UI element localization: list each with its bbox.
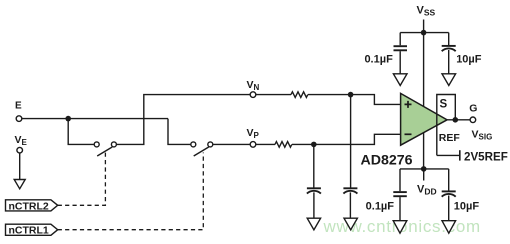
svg-text:REF: REF bbox=[439, 132, 461, 144]
wire node P down to capacitor C6 bbox=[313, 144, 315, 188]
svg-text:nCTRL1: nCTRL1 bbox=[9, 225, 49, 237]
svg-text:nCTRL2: nCTRL2 bbox=[9, 200, 49, 212]
wire bottom rail bbox=[400, 168, 449, 170]
svg-text:G: G bbox=[469, 103, 477, 115]
wire resistor R2 to -in step bbox=[292, 134, 401, 144]
switch S2 bbox=[191, 142, 213, 156]
wire switch2 to VP bbox=[213, 143, 250, 145]
node VP terminal bbox=[250, 142, 256, 148]
capacitor C4 10uF bottom (polarized) bbox=[442, 169, 456, 221]
ground under C2 bbox=[442, 74, 456, 86]
capacitor C5 (polarized) bbox=[343, 188, 357, 218]
wire E row bbox=[22, 118, 168, 120]
sense box S bbox=[437, 95, 456, 156]
wire node N down to capacitor C5 bbox=[350, 95, 352, 188]
wire switch1 to VN riser bbox=[116, 95, 250, 145]
junction output bbox=[453, 117, 459, 123]
capacitor C3 0.1uF bottom bbox=[393, 169, 407, 221]
junction node N bbox=[348, 92, 354, 98]
arrow VE bbox=[14, 180, 25, 189]
VDD stub bbox=[423, 169, 425, 181]
capacitor C1 0.1uF top bbox=[394, 33, 408, 74]
op-amp U1 AD8276 bbox=[401, 93, 448, 145]
wire resistor R1 to +in step bbox=[308, 95, 401, 105]
wire REF to 2V5REF bbox=[437, 154, 460, 156]
dashed control nCTRL1 to S2 bbox=[58, 153, 204, 230]
node G terminal bbox=[470, 117, 476, 123]
junction VSS bbox=[421, 30, 427, 36]
wire output to G bbox=[447, 119, 470, 121]
flag nCTRL2 bbox=[6, 200, 58, 211]
capacitor C6 (polarized) bbox=[307, 188, 321, 218]
op-amp minus sign bbox=[405, 133, 412, 135]
wire VN to resistor bbox=[256, 94, 291, 96]
op-amp plus sign bbox=[405, 101, 412, 108]
svg-text:2V5REF: 2V5REF bbox=[464, 150, 508, 163]
ground under C4 bbox=[442, 221, 456, 234]
wire VP to resistor bbox=[256, 143, 275, 145]
terminal bar 2V5REF bbox=[459, 150, 461, 160]
wire top rail bbox=[400, 32, 449, 34]
VSS stub bbox=[423, 20, 425, 33]
node VN terminal bbox=[250, 92, 256, 98]
ground under C3 bbox=[393, 221, 407, 234]
svg-text:0.1µF: 0.1µF bbox=[364, 54, 393, 66]
svg-text:AD8276: AD8276 bbox=[361, 153, 413, 169]
junction node P bbox=[311, 142, 317, 148]
flag nCTRL1 bbox=[6, 224, 58, 235]
svg-text:E: E bbox=[15, 101, 22, 112]
ground under C6 bbox=[307, 218, 320, 230]
ground under C1 bbox=[393, 74, 407, 86]
supply rail through op-amp bbox=[423, 33, 425, 169]
switch S1 bbox=[94, 142, 116, 156]
junction VDD bbox=[421, 166, 427, 172]
svg-text:0.1µF: 0.1µF bbox=[366, 201, 395, 213]
wire E row down to switch 2 bbox=[168, 119, 191, 145]
svg-text:10µF: 10µF bbox=[456, 54, 482, 66]
ground under C5 bbox=[344, 218, 357, 230]
wire VE arrow stem bbox=[19, 153, 21, 179]
svg-text:S: S bbox=[440, 99, 448, 111]
resistor R2 bbox=[275, 142, 292, 148]
node E terminal bbox=[16, 116, 22, 122]
dashed control nCTRL2 to S1 bbox=[58, 153, 106, 206]
wire E branch down to switch 1 bbox=[68, 119, 94, 145]
junction E bbox=[65, 116, 71, 122]
resistor R1 bbox=[291, 92, 308, 98]
capacitor C2 10uF top (polarized) bbox=[442, 33, 456, 74]
node VE terminal bbox=[17, 147, 23, 153]
svg-text:10µF: 10µF bbox=[454, 201, 480, 213]
